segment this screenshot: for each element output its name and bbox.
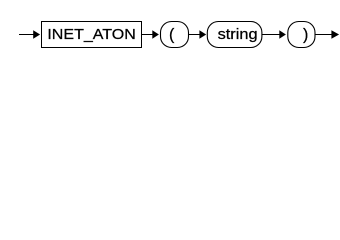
svg-text:string: string bbox=[218, 27, 258, 43]
svg-text:): ) bbox=[303, 27, 308, 44]
svg-text:(: ( bbox=[169, 27, 175, 44]
svg-text:INET_ATON: INET_ATON bbox=[47, 27, 136, 43]
